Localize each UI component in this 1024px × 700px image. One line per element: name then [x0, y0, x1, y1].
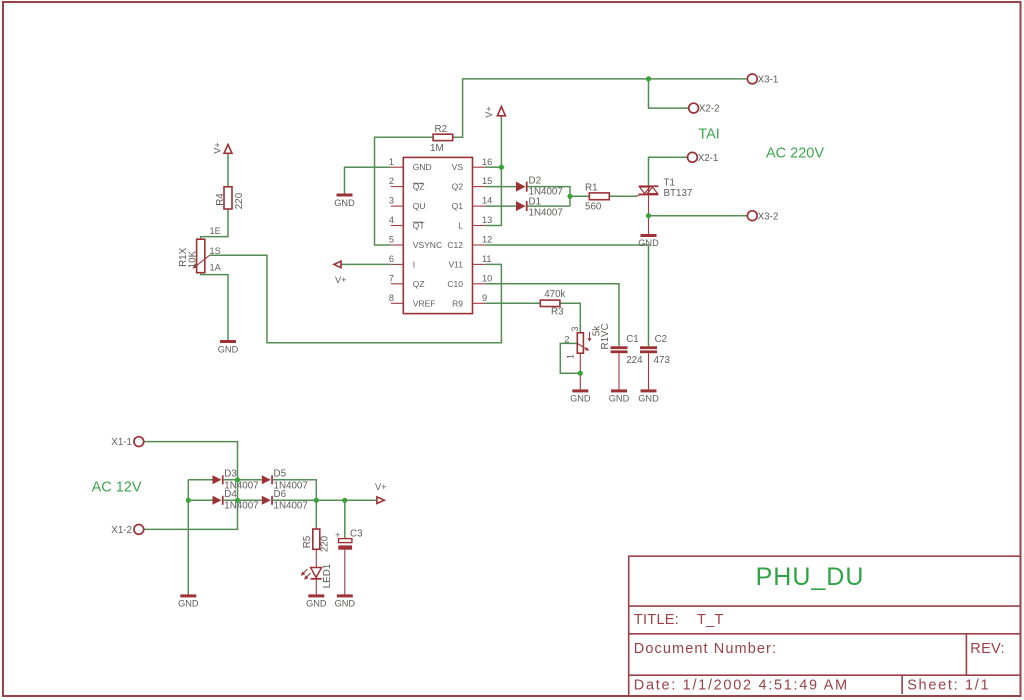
ground bridge	[178, 594, 199, 608]
svg-text:C3: C3	[350, 529, 363, 540]
wire D5 cathode down to bottom rail	[273, 480, 316, 501]
pin 7 QZ	[389, 273, 425, 288]
wire pin16	[486, 166, 502, 168]
wire left rail to D3 anode	[188, 479, 212, 481]
wire D2 cathode to node	[528, 187, 570, 207]
LED LED1	[301, 564, 333, 589]
wire D6 cathode to V+ arrow	[273, 499, 377, 501]
svg-text:16: 16	[482, 157, 492, 167]
svg-text:I: I	[413, 259, 415, 269]
diode D6	[262, 489, 308, 511]
svg-text:R2: R2	[435, 124, 448, 135]
resistor R5	[302, 529, 330, 552]
connector X2-1	[688, 152, 719, 163]
wire branch to X2-2	[649, 79, 689, 108]
node dot D1 D2 R1	[567, 194, 572, 199]
svg-text:C1: C1	[626, 334, 639, 345]
svg-text:8: 8	[389, 293, 394, 303]
svg-text:D5: D5	[274, 469, 287, 480]
svg-text:Q2: Q2	[452, 182, 464, 192]
wire trimmer pin2 loop	[560, 343, 580, 373]
wire pin9 to R3	[486, 302, 541, 304]
wire D3 cathode to D5 anode	[224, 479, 262, 481]
svg-text:1S: 1S	[210, 246, 221, 256]
svg-text:QZ: QZ	[413, 279, 425, 289]
V+ supply bottom	[375, 482, 387, 504]
svg-text:VS: VS	[452, 162, 464, 172]
diode D1	[516, 196, 563, 218]
svg-text:Sheet: 1/1: Sheet: 1/1	[907, 677, 990, 693]
svg-text:D6: D6	[274, 489, 287, 500]
wire pin12 to C2	[486, 245, 649, 346]
wire pin6 to V+ arrow	[341, 263, 391, 265]
svg-text:X1-1: X1-1	[111, 437, 132, 448]
svg-text:470k: 470k	[544, 289, 565, 300]
svg-text:+: +	[335, 530, 340, 540]
pin 13 L	[458, 215, 492, 230]
svg-text:Date: 1/1/2002 4:51:49 AM: Date: 1/1/2002 4:51:49 AM	[634, 677, 849, 693]
svg-text:R9: R9	[452, 298, 463, 308]
wire left rail to D4 anode	[188, 499, 212, 501]
ground triac	[638, 234, 659, 248]
svg-text:R1: R1	[585, 182, 598, 193]
svg-text:Q1: Q1	[452, 201, 464, 211]
capacitor C1	[611, 334, 644, 366]
svg-text:13: 13	[482, 215, 492, 225]
title block row line 2	[629, 633, 1021, 635]
ground LED1	[306, 594, 327, 608]
svg-text:C12: C12	[447, 240, 463, 250]
svg-text:GND: GND	[218, 345, 239, 355]
node dot bridge bottom mid	[235, 498, 240, 503]
wire X2-1 to triac MT2	[649, 157, 688, 186]
wire trimmer pin1 to GND	[579, 353, 581, 389]
svg-text:V+: V+	[335, 275, 347, 285]
svg-text:1E: 1E	[210, 226, 221, 236]
wire C1 to GND	[618, 353, 620, 389]
pin 15 Q2	[452, 176, 493, 191]
svg-text:D3: D3	[224, 469, 237, 480]
TITLEBLOCK	[629, 556, 1021, 696]
svg-text:REV:: REV:	[970, 641, 1005, 657]
svg-text:T_T: T_T	[697, 612, 724, 628]
wire pot 1A to GND	[201, 273, 228, 340]
ground trimmer	[570, 389, 591, 403]
pin 9 R9	[452, 293, 487, 308]
svg-text:C10: C10	[447, 279, 463, 289]
ground C3	[335, 594, 356, 608]
svg-text:1M: 1M	[430, 143, 444, 154]
svg-text:AC 12V: AC 12V	[92, 479, 142, 495]
pin 4 QT	[389, 215, 425, 230]
node dot bridge right	[314, 498, 319, 503]
svg-text:1N4007: 1N4007	[274, 500, 308, 511]
diode D5	[262, 469, 308, 492]
connector X2-2	[689, 103, 720, 115]
wire bridge left rail to GND	[187, 480, 189, 595]
wire triac MT1 junction to GND	[648, 195, 650, 234]
wire node to C3	[344, 500, 346, 538]
svg-text:1A: 1A	[210, 263, 222, 273]
pin 12 C12	[447, 235, 492, 250]
title block Sheet divider	[901, 675, 903, 694]
svg-text:224: 224	[626, 355, 643, 366]
svg-text:GND: GND	[609, 393, 630, 403]
pin 14 Q1	[452, 196, 493, 211]
svg-text:D1: D1	[529, 196, 542, 207]
svg-text:220: 220	[319, 535, 330, 552]
node dot bridge top mid	[235, 477, 240, 482]
trimmer R1VC	[564, 323, 611, 359]
node dot trimmer wiper	[578, 371, 583, 376]
node dot triac MT1	[646, 213, 651, 218]
svg-text:D2: D2	[529, 175, 542, 186]
svg-text:VSYNC: VSYNC	[413, 240, 442, 250]
op-amp U1 IC box	[403, 157, 472, 313]
V+ supply pin6	[334, 261, 347, 285]
svg-text:D4: D4	[224, 489, 237, 500]
wire D1 cathode to node	[528, 205, 570, 207]
ground pin1 net	[334, 194, 355, 209]
svg-text:R1VC: R1VC	[600, 323, 611, 349]
pin 3 QU	[389, 196, 426, 211]
wire node to R1	[570, 195, 589, 197]
svg-text:9: 9	[482, 293, 487, 303]
wire R5 to LED1	[315, 549, 317, 567]
wire D4 cathode to D6 anode	[224, 499, 262, 501]
wire pin14 to D1	[486, 205, 517, 207]
svg-text:7: 7	[389, 273, 394, 283]
resistor R3	[540, 289, 565, 317]
node dot VS pin16	[499, 165, 504, 170]
svg-text:VREF: VREF	[413, 298, 436, 308]
svg-text:15: 15	[482, 176, 492, 186]
svg-text:14: 14	[482, 196, 492, 206]
svg-text:PHU_DU: PHU_DU	[756, 563, 865, 591]
wire pin10 to C1	[486, 284, 620, 347]
svg-text:GND: GND	[638, 238, 659, 248]
svg-text:GND: GND	[306, 598, 327, 608]
title block outline	[629, 556, 1021, 696]
wire X1-1 to bridge to X1-2	[144, 442, 238, 530]
ground C1	[609, 389, 630, 403]
svg-text:R4: R4	[215, 193, 226, 206]
svg-text:5: 5	[389, 235, 394, 245]
svg-text:560: 560	[585, 202, 602, 213]
pin 11 V11	[449, 254, 492, 269]
svg-text:220: 220	[234, 192, 245, 209]
diode D2	[516, 175, 563, 197]
pin 6 I	[389, 254, 415, 269]
svg-text:R5: R5	[302, 535, 313, 548]
svg-text:R3: R3	[551, 307, 564, 318]
svg-text:GND: GND	[413, 162, 432, 172]
svg-text:2: 2	[564, 335, 569, 345]
svg-text:11: 11	[482, 254, 492, 264]
svg-text:V+: V+	[213, 142, 223, 154]
svg-text:L: L	[458, 221, 463, 231]
wire R1 to triac gate	[609, 195, 636, 197]
V+ supply above VS	[484, 106, 506, 118]
pin 16 VS	[452, 157, 493, 172]
V+ supply top left	[213, 142, 232, 154]
svg-text:GND: GND	[178, 598, 199, 608]
title block REV divider	[965, 634, 967, 675]
node dot bridge left	[186, 498, 191, 503]
resistor R1	[585, 182, 609, 212]
title block row line 3	[629, 674, 1021, 676]
svg-text:X2-1: X2-1	[698, 153, 719, 164]
svg-text:12: 12	[482, 235, 492, 245]
pin 8 VREF	[389, 293, 436, 308]
svg-text:LED1: LED1	[322, 564, 333, 589]
svg-text:GND: GND	[638, 393, 659, 403]
svg-text:V+: V+	[484, 106, 494, 118]
svg-text:1N4007: 1N4007	[224, 500, 258, 511]
svg-text:X2-2: X2-2	[699, 104, 720, 115]
svg-text:10K: 10K	[187, 250, 198, 268]
node dot top rail	[646, 76, 651, 81]
wire R2 left to pin5 VSYNC	[375, 137, 434, 245]
wire LED1 to GND	[315, 580, 317, 595]
svg-text:TITLE:: TITLE:	[634, 612, 679, 628]
svg-text:X3-2: X3-2	[758, 211, 779, 222]
potentiometer R1X	[178, 226, 222, 273]
resistor R4	[215, 187, 245, 209]
wire node to R5	[315, 500, 317, 529]
wire pin15 to D2	[486, 186, 517, 188]
wire R4 to pot 1E	[201, 209, 228, 239]
svg-text:GND: GND	[570, 393, 591, 403]
wire R3 to trimmer pin3	[560, 303, 580, 333]
connector X3-2	[747, 211, 778, 223]
svg-text:X3-1: X3-1	[758, 75, 779, 86]
capacitor C3 polarized	[335, 529, 363, 550]
wire C2 to GND	[648, 353, 650, 389]
connector X3-1	[747, 74, 778, 86]
svg-text:GND: GND	[334, 198, 355, 208]
wire pot 1S to pin11 V11	[210, 255, 502, 342]
svg-text:3: 3	[570, 326, 580, 331]
svg-text:4: 4	[389, 215, 394, 225]
svg-text:BT137: BT137	[664, 188, 693, 199]
wire triac MT1 to X3-2	[649, 215, 748, 217]
svg-text:6: 6	[389, 254, 394, 264]
pin 1 GND	[389, 157, 432, 172]
diode D4	[213, 489, 259, 511]
title block row line 1	[629, 605, 1021, 607]
node dot C3 tap	[342, 498, 347, 503]
svg-text:C2: C2	[655, 334, 668, 345]
svg-text:X1-2: X1-2	[111, 525, 132, 536]
diode D3	[213, 469, 259, 492]
connector X1-1	[111, 437, 143, 449]
svg-text:T1: T1	[664, 177, 675, 188]
triac T1	[636, 177, 693, 199]
resistor R2	[430, 124, 453, 154]
pin 2 QZ	[389, 176, 425, 191]
svg-text:QU: QU	[413, 201, 426, 211]
connector X1-2	[111, 525, 143, 537]
svg-text:Document Number:: Document Number:	[634, 641, 777, 657]
capacitor C2	[640, 334, 670, 366]
pin 10 C10	[447, 273, 492, 288]
svg-text:3: 3	[389, 196, 394, 206]
svg-text:2: 2	[389, 176, 394, 186]
ground C2	[638, 389, 659, 403]
svg-text:V11: V11	[449, 259, 464, 269]
svg-text:1: 1	[389, 157, 394, 167]
svg-text:1N4007: 1N4007	[529, 207, 563, 218]
wire V+ down to VS pin16 and pin13	[486, 116, 502, 226]
svg-text:10: 10	[482, 273, 492, 283]
svg-text:V+: V+	[375, 482, 387, 492]
svg-text:TAI: TAI	[698, 127, 719, 143]
pin 5 VSYNC	[389, 235, 442, 250]
ground below R1X	[218, 340, 239, 355]
wire V+ top to R4	[227, 153, 229, 186]
wire pin1 to GND	[345, 167, 391, 193]
svg-text:AC 220V: AC 220V	[766, 146, 824, 162]
svg-text:1: 1	[566, 354, 576, 359]
wire C3 to GND	[344, 550, 346, 595]
wire R2 right up to X3-1	[453, 79, 748, 137]
svg-text:473: 473	[654, 355, 671, 366]
svg-text:GND: GND	[335, 598, 356, 608]
